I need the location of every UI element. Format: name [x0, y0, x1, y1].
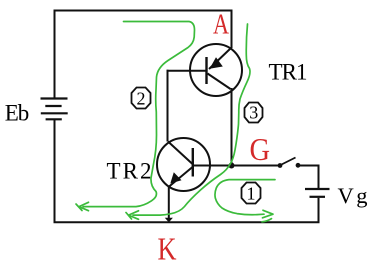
- svg-text:Vg: Vg: [338, 183, 368, 208]
- svg-text:G: G: [250, 132, 271, 167]
- green current path 3: down right of TR1 through gate area to cathode: [133, 24, 250, 215]
- switch contact dot left: [278, 163, 283, 168]
- transistor TR2 emitter line: [169, 167, 193, 187]
- transistor TR2 emitter arrow (NPN): [170, 172, 181, 183]
- transistor TR1 collector line: [208, 74, 231, 90]
- wire TR2 emitter to cathode rail: [168, 186, 170, 221]
- svg-text:TR2: TR2: [107, 158, 152, 183]
- svg-text:K: K: [158, 231, 177, 266]
- green current path 2: anode loop down left side: [83, 22, 195, 207]
- wire left down from Eb: [54, 120, 56, 222]
- wire TR1 base to TR2 collector: [167, 71, 168, 142]
- transistor TR2 body circle: [157, 138, 210, 191]
- green arrowhead path 1: [262, 210, 273, 222]
- battery Vg short plate: [310, 196, 326, 198]
- battery Eb short plate 2: [45, 105, 61, 107]
- wire bottom rail: [54, 221, 320, 223]
- battery Eb long plate 3: [41, 112, 68, 114]
- svg-text:2: 2: [137, 89, 146, 109]
- wire top rail: [55, 11, 232, 100]
- circled number 2 octagon: [132, 88, 151, 109]
- battery Eb long plate top: [41, 97, 68, 99]
- circled number 3 octagon: [245, 103, 263, 123]
- switch contact dot right: [296, 163, 301, 168]
- switch blade: [281, 158, 296, 166]
- transistor TR1 base bar: [205, 57, 207, 84]
- transistor TR1 body circle: [190, 44, 242, 96]
- svg-text:A: A: [213, 9, 229, 41]
- wire Vg to bottom rail: [318, 198, 320, 222]
- arrow TR2 emitter into rail: [165, 218, 173, 223]
- green arrowhead path 3: [126, 211, 139, 220]
- svg-text:3: 3: [249, 103, 258, 123]
- wire switch to Vg: [298, 166, 319, 189]
- svg-text:Eb: Eb: [5, 100, 30, 125]
- wire TR1 collector to gate node: [231, 88, 233, 166]
- wire TR1 base: [167, 70, 207, 72]
- green arrowhead path 2: [76, 202, 89, 210]
- transistor TR2 base bar: [192, 148, 194, 177]
- transistor TR1 emitter line: [209, 48, 232, 70]
- node G junction dot: [229, 163, 235, 169]
- transistor TR2 collector line: [168, 142, 193, 165]
- svg-text:1: 1: [247, 184, 256, 204]
- battery Vg long plate: [305, 188, 330, 190]
- green current path 1: gate drive loop: [215, 180, 275, 215]
- svg-text:TR1: TR1: [269, 60, 308, 85]
- transistor TR1 emitter arrow (PNP): [210, 57, 223, 69]
- wire gate node to switch: [193, 165, 280, 167]
- battery Eb short plate bottom: [46, 118, 62, 120]
- circled number 1 octagon: [242, 183, 261, 204]
